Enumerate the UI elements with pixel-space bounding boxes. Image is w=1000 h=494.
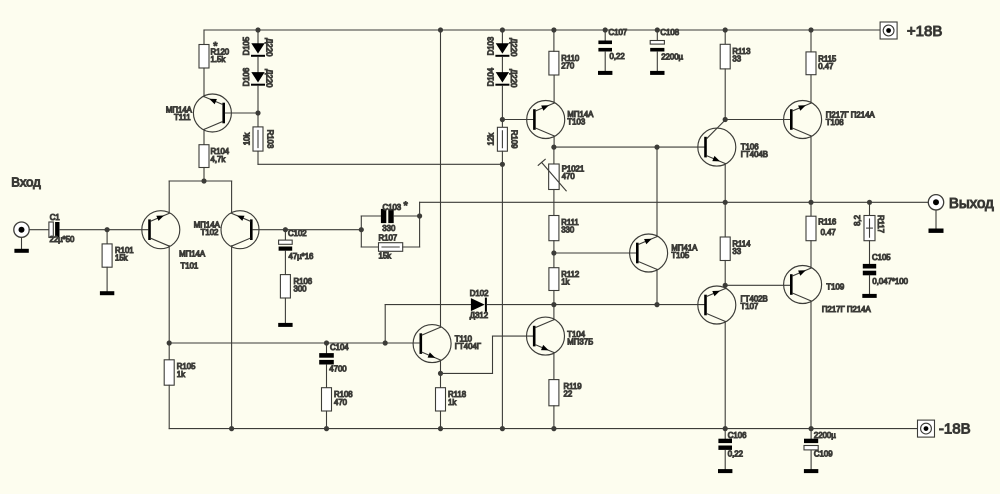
svg-text:D103: D103: [486, 37, 495, 56]
svg-text:+18В: +18В: [907, 23, 942, 40]
svg-text:-18В: -18В: [939, 420, 971, 437]
svg-text:C108: C108: [660, 28, 679, 37]
svg-text:C104: C104: [330, 343, 349, 352]
svg-text:C102: C102: [288, 229, 307, 238]
svg-text:1k: 1k: [448, 398, 456, 407]
svg-text:R117: R117: [876, 215, 885, 233]
svg-text:1k: 1k: [561, 278, 569, 287]
svg-text:Выход: Выход: [949, 195, 994, 212]
svg-text:0,22: 0,22: [610, 52, 625, 61]
svg-text:Т102: Т102: [201, 228, 219, 237]
svg-text:R107: R107: [379, 233, 398, 242]
svg-text:470: 470: [562, 172, 576, 181]
svg-text:47µ*16: 47µ*16: [289, 252, 314, 261]
svg-text:22: 22: [564, 390, 573, 399]
svg-text:2200µ: 2200µ: [661, 52, 683, 61]
svg-text:330: 330: [561, 225, 575, 234]
svg-text:C103: C103: [383, 203, 402, 212]
svg-text:4700: 4700: [329, 365, 347, 374]
svg-text:ГТ404В: ГТ404В: [741, 150, 768, 159]
svg-text:D102: D102: [470, 289, 489, 298]
svg-text:МП37Б: МП37Б: [567, 338, 593, 347]
svg-text:*: *: [404, 200, 409, 212]
svg-text:300: 300: [294, 285, 308, 294]
svg-text:Вход: Вход: [11, 174, 41, 189]
svg-text:Т108: Т108: [826, 118, 844, 127]
svg-text:R103: R103: [265, 130, 274, 149]
svg-text:4,7k: 4,7k: [211, 155, 226, 164]
svg-text:0,047*100: 0,047*100: [872, 277, 908, 286]
svg-text:D104: D104: [486, 67, 495, 86]
svg-text:270: 270: [561, 61, 575, 70]
svg-text:330: 330: [382, 224, 396, 233]
svg-text:0,22: 0,22: [728, 449, 743, 458]
svg-text:C109: C109: [814, 449, 833, 458]
svg-text:C1: C1: [50, 213, 60, 222]
svg-text:12k: 12k: [487, 133, 496, 146]
svg-text:C105: C105: [872, 253, 891, 262]
svg-text:D106: D106: [242, 68, 251, 87]
svg-text:Д220: Д220: [265, 69, 274, 88]
svg-text:D105: D105: [242, 36, 251, 55]
svg-text:0.47: 0.47: [821, 228, 836, 237]
svg-text:C107: C107: [609, 28, 628, 37]
svg-text:10k: 10k: [243, 133, 252, 146]
svg-text:Т109: Т109: [826, 283, 844, 292]
svg-text:Т103: Т103: [567, 117, 585, 126]
svg-text:1.5k: 1.5k: [211, 55, 226, 64]
svg-text:C106: C106: [728, 431, 747, 440]
svg-text:0.47: 0.47: [818, 62, 833, 71]
svg-text:22µ*50: 22µ*50: [50, 235, 76, 244]
svg-text:Т111: Т111: [174, 113, 191, 122]
svg-text:470: 470: [334, 398, 348, 407]
svg-text:R109: R109: [510, 130, 519, 149]
svg-text:Д220: Д220: [509, 38, 518, 57]
svg-text:МП14А: МП14А: [179, 250, 206, 259]
svg-text:Д312: Д312: [470, 311, 488, 320]
svg-text:15k: 15k: [115, 254, 128, 263]
svg-text:8,2: 8,2: [853, 215, 862, 226]
svg-text:1k: 1k: [177, 370, 185, 379]
svg-text:R116: R116: [818, 218, 836, 227]
svg-text:33: 33: [732, 247, 741, 256]
svg-text:Т107: Т107: [741, 302, 759, 311]
svg-text:ГТ404Г: ГТ404Г: [455, 342, 482, 351]
svg-text:П217Г П214А: П217Г П214А: [822, 305, 872, 314]
svg-text:15k: 15k: [379, 252, 392, 261]
svg-text:Д220: Д220: [509, 69, 518, 88]
svg-text:Д220: Д220: [265, 38, 274, 57]
svg-text:33: 33: [732, 54, 741, 63]
svg-text:Т101: Т101: [181, 261, 199, 270]
svg-text:Т105: Т105: [671, 251, 689, 260]
svg-text:2200µ: 2200µ: [814, 431, 836, 440]
